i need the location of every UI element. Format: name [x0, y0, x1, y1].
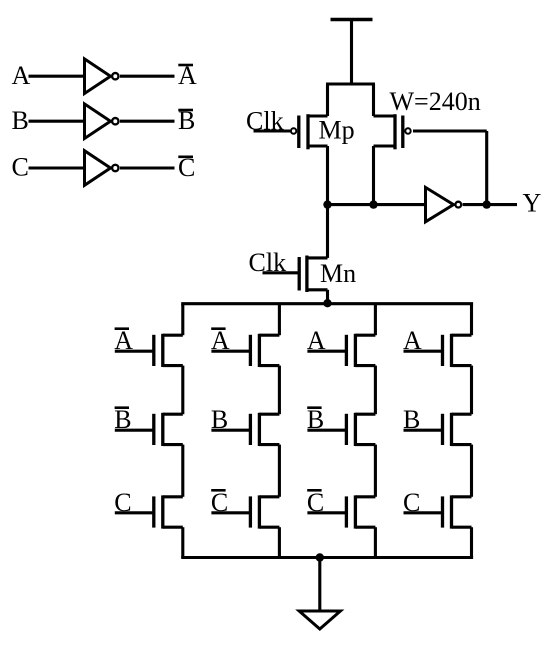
wire branch 1 rail seg 2 [181, 366, 184, 415]
svg-text:Clk: Clk [249, 248, 287, 277]
wire C-bar output [120, 166, 175, 169]
wire Y output [463, 203, 517, 206]
wire gate B M22 [211, 429, 250, 432]
wire B-bar output [120, 120, 175, 123]
wire A-bar output [120, 75, 175, 78]
wire C input [29, 166, 85, 169]
svg-text:B: B [12, 106, 29, 135]
svg-text:A: A [211, 326, 230, 355]
transistor M22 (B) [259, 413, 279, 416]
wire Mp drain rail [326, 146, 329, 205]
junction dot (Mn source) [323, 299, 331, 307]
wire branch 1 rail seg 4 [181, 527, 184, 557]
svg-text:C: C [307, 488, 324, 517]
wire branch 3 rail seg 3 [374, 445, 377, 497]
wire Mn source [326, 290, 329, 304]
wire branch 4 rail seg 1 [470, 304, 473, 336]
wire VDD top bar [326, 82, 375, 85]
svg-text:C: C [403, 488, 420, 517]
junction dot (keeper drain) [369, 200, 377, 208]
wire gate C-bar M23 [211, 511, 250, 514]
svg-text:B: B [307, 405, 324, 434]
wire gate A M41 [404, 350, 443, 353]
svg-text:Clk: Clk [246, 106, 284, 135]
VDD supply [331, 18, 373, 21]
svg-text:B: B [403, 405, 420, 434]
wire branch 1 rail seg 1 [181, 304, 184, 336]
svg-text:A: A [307, 326, 326, 355]
wire gate B-bar M12 [115, 429, 154, 432]
wire branch 3 rail seg 2 [374, 366, 377, 415]
wire Clk to Mp gate [254, 129, 291, 132]
wire branch 4 rail seg 3 [470, 445, 473, 497]
transistor M12 (B-bar) [163, 413, 183, 416]
inverter INV1 [85, 59, 111, 94]
wire gate C-bar M33 [307, 511, 346, 514]
wire branch 3 rail seg 1 [374, 304, 377, 336]
wire node to Mn drain [326, 205, 329, 258]
svg-text:B: B [211, 405, 228, 434]
svg-text:C: C [12, 153, 29, 182]
transistor M41 (A) [452, 334, 472, 337]
wire Mp source rail [326, 84, 329, 116]
wire B input [29, 120, 85, 123]
transistor M13 (C) [163, 495, 183, 498]
inverter INV3 [85, 151, 111, 186]
svg-text:Mn: Mn [320, 259, 356, 288]
inverter U2 [426, 187, 454, 221]
transistor M43 (C) [452, 495, 472, 498]
svg-text:Mp: Mp [319, 116, 355, 145]
wire gate C M43 [404, 511, 443, 514]
junction dot (node Y) [483, 200, 491, 208]
transistor M23 (C-bar) [259, 495, 279, 498]
wire branch 4 rail seg 4 [470, 527, 473, 557]
transistor M-keeper [374, 114, 396, 117]
wire keeper source rail [372, 84, 375, 116]
wire dynamic node [328, 203, 426, 206]
wire branch 1 rail seg 3 [181, 445, 184, 497]
wire gate A-bar M11 [115, 350, 154, 353]
transistor M31 (A) [355, 334, 375, 337]
svg-text:W=240n: W=240n [390, 87, 481, 116]
wire branch 2 rail seg 1 [278, 304, 281, 336]
wire PDN top rail [181, 302, 473, 305]
transistor Mp [308, 114, 328, 117]
svg-text:Y: Y [523, 189, 542, 218]
wire gate A M31 [307, 350, 346, 353]
wire Clk to Mn gate [263, 271, 300, 274]
wire keeper drain rail [372, 146, 375, 205]
ground [299, 611, 340, 629]
wire branch 4 rail seg 2 [470, 366, 473, 415]
wire gate B-bar M32 [307, 429, 346, 432]
wire PDN bottom rail [181, 556, 473, 559]
wire gate C M13 [115, 511, 154, 514]
wire branch 3 rail seg 4 [374, 527, 377, 557]
wire to ground [318, 558, 321, 612]
svg-text:A: A [12, 61, 31, 90]
svg-text:C: C [211, 488, 228, 517]
junction dot (ground node) [316, 553, 324, 561]
transistor M32 (B-bar) [355, 413, 375, 416]
transistor M21 (A-bar) [259, 334, 279, 337]
transistor M42 (B) [452, 413, 472, 416]
transistor Mn [307, 256, 328, 259]
junction dot (Mp drain) [323, 200, 331, 208]
svg-text:B: B [114, 405, 131, 434]
wire branch 2 rail seg 3 [278, 445, 281, 497]
transistor M33 (C-bar) [355, 495, 375, 498]
inverter INV2 [85, 104, 111, 139]
svg-text:C: C [114, 488, 131, 517]
transistor M11 (A-bar) [163, 334, 183, 337]
wire gate B M42 [404, 429, 443, 432]
wire branch 2 rail seg 2 [278, 366, 281, 415]
wire branch 2 rail seg 4 [278, 527, 281, 557]
svg-text:A: A [114, 326, 133, 355]
wire A input [29, 75, 85, 78]
svg-text:A: A [403, 326, 422, 355]
wire keeper gate feedback [413, 129, 487, 132]
wire gate A-bar M21 [211, 350, 250, 353]
